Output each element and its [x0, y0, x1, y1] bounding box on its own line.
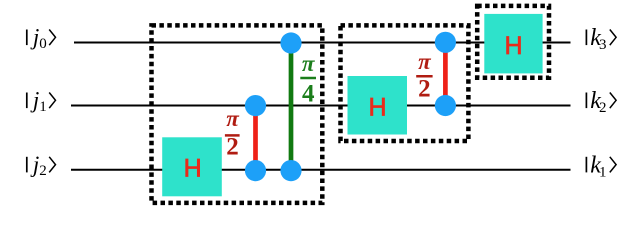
svg-text:1: 1: [599, 164, 607, 180]
svg-text:2: 2: [226, 134, 239, 161]
controlled-phase pi/2 line (q0-q1): [443, 42, 448, 105]
svg-text:2: 2: [599, 100, 607, 116]
controlled-phase pi/2 line (q1-q2): [253, 106, 258, 171]
controlled-phase pi/4 line (q0-q2): [289, 43, 294, 171]
node |j1> label: [27, 88, 56, 115]
svg-text:2: 2: [39, 163, 47, 179]
svg-text:π: π: [226, 106, 240, 131]
node |k3> label: [586, 25, 616, 53]
wire q2: [71, 169, 571, 171]
gate H3 on q0: [484, 14, 542, 74]
dotted group box 2: [341, 25, 469, 141]
control dot q0 (pi/2 second): [435, 32, 456, 53]
node |k1> label: [586, 152, 616, 180]
value label pi/2: [225, 106, 240, 160]
control dot q1 (pi/2): [245, 95, 266, 116]
node |j0> label: [27, 25, 56, 52]
control dot q1 (pi/2 second): [435, 95, 456, 116]
svg-text:H: H: [504, 32, 522, 60]
control dot q2 (pi/4): [280, 160, 301, 181]
svg-text:H: H: [368, 94, 386, 122]
value label pi/4: [300, 51, 316, 108]
svg-text:π: π: [302, 51, 316, 76]
svg-text:1: 1: [39, 99, 47, 115]
svg-text:0: 0: [39, 36, 47, 52]
svg-text:3: 3: [599, 37, 607, 53]
wire q0: [74, 42, 571, 44]
node |k2> label: [586, 88, 616, 116]
svg-text:H: H: [184, 155, 202, 183]
gate H1 on q2: [162, 137, 222, 196]
svg-text:4: 4: [302, 80, 315, 107]
svg-text:2: 2: [418, 76, 431, 103]
wire q1: [71, 105, 571, 107]
node |j2> label: [27, 152, 56, 179]
value label pi/2 second: [416, 49, 432, 103]
svg-text:π: π: [418, 49, 432, 74]
dotted group box 1: [152, 25, 323, 203]
control dot q2 (pi/2): [245, 160, 266, 181]
gate H2 on q1: [348, 76, 408, 135]
control dot q0 (pi/4): [280, 32, 301, 53]
dotted group box 3: [477, 6, 549, 78]
